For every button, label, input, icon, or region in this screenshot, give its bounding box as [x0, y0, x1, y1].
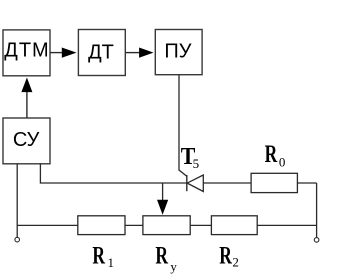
svg-text:СУ: СУ [13, 129, 40, 151]
svg-text:R: R [155, 242, 168, 270]
left terminal [15, 237, 20, 242]
svg-text:R: R [265, 140, 278, 168]
block PU [155, 30, 202, 75]
wire Ry to R2 [190, 224, 211, 226]
left vertical wire from SU [16, 164, 18, 237]
svg-text:у: у [170, 259, 177, 274]
svg-text:ДТМ: ДТМ [4, 39, 49, 61]
label R0 [265, 140, 286, 169]
resistor R2 [211, 216, 257, 235]
svg-text:ПУ: ПУ [164, 41, 191, 63]
svg-text:R: R [92, 242, 105, 270]
svg-text:1: 1 [108, 255, 115, 270]
wire R0 to right vertical [297, 182, 316, 184]
wire PU down to thyristor gate [179, 75, 187, 177]
svg-text:ДТ: ДТ [88, 41, 114, 63]
wire thyristor to R0 [203, 182, 251, 184]
wire R2 to right vertical [257, 224, 316, 226]
right terminal [314, 238, 319, 243]
resistor R1 [78, 216, 125, 235]
arrow DT to PU [125, 48, 153, 58]
wire R1 to Ry [125, 224, 143, 226]
label R1 [92, 242, 114, 270]
label Ry [155, 242, 177, 275]
svg-text:2: 2 [232, 254, 239, 269]
block DT [78, 30, 125, 76]
thyristor T5 [187, 175, 204, 192]
right vertical wire [316, 183, 318, 237]
arrow DTM to DT [50, 48, 77, 58]
arrow SU to DTM [21, 78, 32, 119]
arrow down to Ry (wiper) [157, 183, 168, 215]
svg-text:0: 0 [279, 154, 286, 169]
label R2 [219, 241, 239, 269]
resistor Ry [143, 216, 190, 235]
block SU [3, 118, 50, 164]
resistor R0 [251, 173, 297, 192]
label T5 [181, 143, 199, 171]
wire SU down and right to thyristor node [40, 164, 186, 183]
svg-text:R: R [219, 241, 232, 269]
block DTM [3, 30, 50, 76]
bottom wire left segment [17, 224, 78, 226]
svg-text:5: 5 [193, 156, 200, 171]
